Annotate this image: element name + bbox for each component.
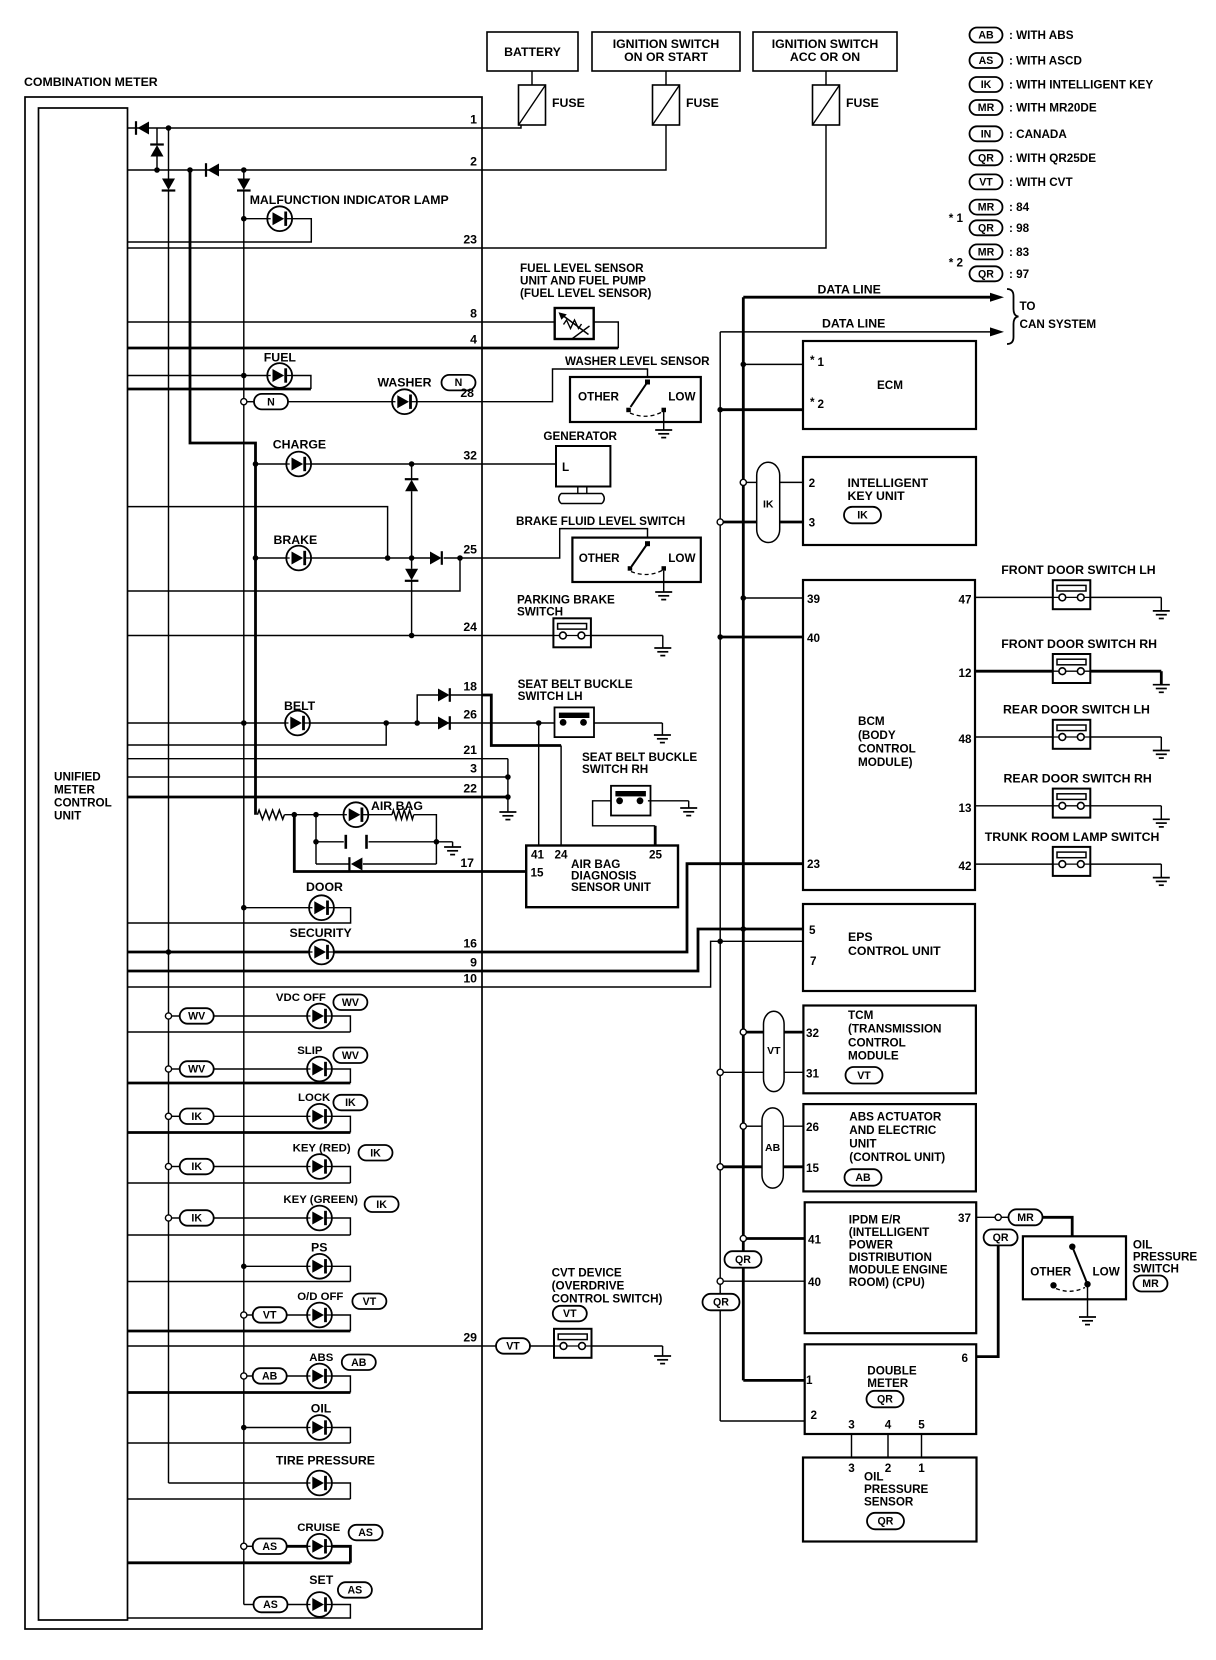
- ground airbag: [444, 847, 461, 855]
- svg-text:ABS: ABS: [309, 1352, 333, 1364]
- svg-text:N: N: [267, 396, 275, 408]
- front door switch RH: [1053, 654, 1091, 683]
- svg-text:BATTERY: BATTERY: [504, 45, 561, 59]
- svg-text:IK: IK: [370, 1147, 381, 1159]
- svg-text:IK: IK: [981, 79, 992, 91]
- wire OIL feed: [244, 1427, 307, 1429]
- rear door switch RH: [1053, 789, 1091, 818]
- svg-text:VT: VT: [563, 1308, 577, 1320]
- lamp OIL: [307, 1415, 332, 1440]
- wire DOOR return: [128, 908, 351, 923]
- wire BRAKE feed: [256, 557, 287, 559]
- svg-text:AS: AS: [979, 55, 994, 67]
- option oval QR double meter: [867, 1391, 904, 1408]
- bus A vertical: [168, 191, 170, 1484]
- wire double meter 2: [720, 1420, 805, 1422]
- wire 26 to seat belt LH: [482, 722, 555, 724]
- svg-text:QR: QR: [878, 1516, 894, 1528]
- svg-text:AS: AS: [348, 1585, 363, 1597]
- wire ECM *2: [720, 408, 803, 411]
- box AIR BAG DIAGNOSIS SENSOR UNIT: [526, 846, 678, 908]
- svg-text:SECURITY: SECURITY: [290, 926, 352, 940]
- wire BCM to trunk room lamp switch: [975, 863, 1053, 865]
- junction ECM *1 CAN-H: [741, 362, 747, 368]
- svg-text:QR: QR: [877, 1394, 893, 1406]
- svg-text:DOUBLE: DOUBLE: [867, 1365, 917, 1378]
- wire DOOR feed: [244, 907, 309, 909]
- option oval VT wire29: [496, 1338, 530, 1354]
- connector capsule VT: [764, 1011, 785, 1091]
- tap circle IPDM41: [740, 1235, 746, 1241]
- wire to airbag pin 41: [538, 723, 540, 846]
- svg-text:OTHER: OTHER: [1030, 1266, 1071, 1279]
- outer box: COMBINATION METER: [25, 97, 482, 1629]
- svg-text:: WITH CVT: : WITH CVT: [1009, 176, 1073, 189]
- inner box: unified meter control unit: [39, 108, 128, 1620]
- svg-text:AS: AS: [358, 1527, 373, 1539]
- svg-text:26: 26: [806, 1121, 820, 1134]
- svg-text:9: 9: [470, 956, 477, 970]
- option oval VT TCM: [846, 1067, 883, 1084]
- wire up-diode top: [156, 128, 158, 145]
- junction SECURITY feed: [166, 949, 172, 955]
- junction brake branch: [385, 555, 391, 561]
- diode airbag: [349, 857, 362, 871]
- row KEY (GREEN): [165, 1215, 171, 1221]
- junction airbag cap left: [313, 812, 319, 818]
- svg-text:2: 2: [470, 155, 477, 169]
- svg-text:3: 3: [848, 1419, 855, 1432]
- svg-text:(BODY: (BODY: [858, 729, 896, 742]
- junction wire 22 ground: [505, 794, 511, 800]
- svg-text:VT: VT: [363, 1296, 377, 1308]
- wire 17 to airbag unit: [482, 870, 526, 873]
- svg-text:WV: WV: [342, 997, 359, 1009]
- svg-text:OIL: OIL: [864, 1471, 883, 1484]
- junction BELT feed: [241, 720, 247, 726]
- wire IK pin 2: [746, 481, 756, 483]
- wire CHARGE feed: [256, 463, 287, 465]
- lamp MIL: [267, 206, 292, 231]
- svg-text:WASHER LEVEL SENSOR: WASHER LEVEL SENSOR: [565, 355, 710, 368]
- diode down on bus A: [162, 179, 176, 191]
- box DOUBLE METER: [805, 1344, 977, 1434]
- arrow data line 1: [990, 293, 1004, 302]
- svg-text:AS: AS: [262, 1541, 277, 1553]
- junction BCM40 CAN-L: [717, 634, 723, 640]
- wire airbag feed: [316, 814, 344, 816]
- svg-text:QR: QR: [978, 152, 994, 164]
- svg-text:23: 23: [807, 858, 821, 871]
- svg-text:FUSE: FUSE: [686, 96, 719, 110]
- wire BCM 39: [743, 597, 803, 599]
- box TCM: [803, 1006, 976, 1094]
- svg-text:VT: VT: [767, 1045, 781, 1057]
- ground brake fluid: [655, 592, 672, 600]
- diode on wire 25: [430, 551, 442, 565]
- ground trunk room lamp switch: [1153, 878, 1170, 886]
- svg-text:40: 40: [807, 632, 821, 645]
- svg-text:15: 15: [531, 867, 545, 880]
- svg-text:2: 2: [809, 477, 816, 490]
- svg-text:VDC OFF: VDC OFF: [276, 992, 326, 1004]
- junction belt return: [383, 720, 389, 726]
- diode up between wire1 wire2: [150, 145, 164, 157]
- wire FUEL lamp out: [292, 376, 311, 390]
- ground front door switch LH: [1153, 611, 1170, 619]
- generator box: [556, 446, 610, 487]
- box BCM: [803, 580, 975, 890]
- wire pin 32 row: [311, 463, 482, 465]
- diode on wire 26: [438, 716, 450, 730]
- box IGNITION SWITCH ACC OR ON: [753, 32, 897, 71]
- wire pin 9 row: [128, 970, 483, 973]
- svg-text:WASHER: WASHER: [378, 375, 432, 389]
- svg-text:WV: WV: [342, 1050, 359, 1062]
- svg-text:MR: MR: [1142, 1278, 1159, 1290]
- junction wire 3 ground: [505, 774, 511, 780]
- svg-text:UNIT AND FUEL PUMP: UNIT AND FUEL PUMP: [520, 275, 646, 288]
- wire IK pin 3: [723, 521, 756, 524]
- wire BELT return: [128, 723, 387, 745]
- option oval N label: [442, 375, 476, 391]
- svg-text:* 2: * 2: [949, 257, 964, 270]
- ground seat belt RH: [680, 808, 697, 816]
- diode down brake-24: [405, 569, 419, 581]
- svg-text:OTHER: OTHER: [579, 552, 620, 565]
- svg-text:41: 41: [808, 1234, 822, 1247]
- option oval MR oil switch: [1009, 1209, 1043, 1225]
- tap circle ABS15: [717, 1164, 723, 1170]
- wire to airbag ground: [436, 841, 452, 843]
- lamp AIR BAG: [344, 802, 369, 827]
- box ECM: [803, 341, 976, 429]
- resistor airbag right: [392, 810, 414, 819]
- wire pin 18 row: [450, 694, 482, 696]
- wire diode pair upper: [411, 464, 413, 479]
- svg-text:ACC OR ON: ACC OR ON: [790, 50, 860, 64]
- option oval QR bus1: [725, 1251, 762, 1268]
- svg-text:TCM: TCM: [848, 1009, 873, 1022]
- option oval IK unit: [844, 507, 881, 524]
- svg-text:GENERATOR: GENERATOR: [543, 430, 617, 443]
- wire circle to N oval: [247, 401, 254, 403]
- wire 16 to BCM 23: [482, 864, 803, 952]
- svg-text:VT: VT: [857, 1070, 871, 1082]
- wire double meter 1: [743, 1379, 804, 1382]
- wire airbag right corner: [414, 815, 437, 842]
- junction cap row left: [313, 839, 319, 845]
- svg-text:LOCK: LOCK: [298, 1092, 331, 1104]
- wire IPDM 37: [976, 1216, 995, 1218]
- svg-text:ABS ACTUATOR: ABS ACTUATOR: [849, 1110, 942, 1123]
- resistor airbag left: [257, 810, 284, 819]
- wire seat belt RH left: [593, 801, 656, 826]
- svg-text:OIL: OIL: [311, 1401, 332, 1415]
- ground 21/3/22: [499, 812, 516, 820]
- svg-text:39: 39: [807, 593, 821, 606]
- svg-text:FUSE: FUSE: [552, 96, 585, 110]
- wire pin 8 row: [128, 321, 555, 323]
- wire to airbag pin 24: [560, 746, 562, 846]
- legend oval AB WITH ABS: [970, 28, 1003, 43]
- svg-text:25: 25: [463, 543, 477, 557]
- svg-text:CVT DEVICE: CVT DEVICE: [552, 1267, 622, 1280]
- wire diode pair lower: [411, 581, 413, 636]
- svg-text:2: 2: [885, 1462, 892, 1475]
- wire fuse1 to pin 1: [482, 125, 521, 128]
- svg-text:TO: TO: [1020, 300, 1036, 313]
- svg-text:SET: SET: [309, 1573, 333, 1587]
- junction airbag wire17: [292, 812, 298, 818]
- tap circle IK pin2: [740, 479, 746, 485]
- svg-text:: 97: : 97: [1009, 268, 1029, 281]
- ground seat belt LH: [654, 735, 671, 743]
- wire IPDM 41: [746, 1237, 804, 1240]
- svg-text:DATA LINE: DATA LINE: [818, 282, 881, 296]
- svg-text:1: 1: [806, 1374, 813, 1387]
- junction BRAKE feed: [253, 555, 259, 561]
- option oval QR pin37: [984, 1229, 1018, 1245]
- wire meter3 to sensor3: [851, 1434, 853, 1458]
- svg-text:IK: IK: [191, 1213, 202, 1225]
- wire pin 24 row: [128, 635, 554, 637]
- wire sensor right loop: [594, 322, 619, 348]
- svg-text:OTHER: OTHER: [578, 391, 619, 404]
- row CRUISE: [241, 1543, 247, 1549]
- svg-text:FUEL LEVEL SENSOR: FUEL LEVEL SENSOR: [520, 262, 644, 275]
- wire BCM to rear door switch LH: [975, 736, 1053, 738]
- junction FUEL feed: [241, 373, 247, 379]
- svg-text:CONTROL: CONTROL: [848, 1036, 906, 1049]
- tap circle IPDM40: [717, 1278, 723, 1284]
- wire BCM 40: [720, 636, 803, 639]
- wire up-diode bottom: [156, 157, 158, 171]
- junction PS feed: [241, 1264, 247, 1270]
- fuse battery: [519, 85, 546, 125]
- wire pin 2 row: [128, 169, 483, 171]
- wire PS out: [332, 1266, 351, 1281]
- wire BCM to front door switch LH: [975, 596, 1053, 598]
- wire meter5 to sensor1: [921, 1434, 923, 1458]
- wire VT oval to switch: [529, 1345, 554, 1347]
- svg-text:POWER: POWER: [849, 1239, 894, 1252]
- wire pin 29 row: [128, 1345, 483, 1347]
- wire diode pair middle: [411, 491, 413, 558]
- wire DATA LINE 2: [720, 331, 996, 333]
- svg-text:CONTROL SWITCH): CONTROL SWITCH): [552, 1292, 663, 1305]
- wire 32 to generator: [482, 463, 556, 465]
- svg-text:18: 18: [463, 680, 477, 694]
- wire N oval to washer lamp: [288, 401, 392, 403]
- svg-text:ROOM) (CPU): ROOM) (CPU): [849, 1276, 925, 1289]
- svg-text:: WITH INTELLIGENT KEY: : WITH INTELLIGENT KEY: [1009, 79, 1153, 92]
- svg-text:CRUISE: CRUISE: [297, 1522, 340, 1534]
- box EPS CONTROL UNIT: [803, 904, 975, 991]
- svg-text:QR: QR: [978, 222, 994, 234]
- svg-text:32: 32: [463, 449, 477, 463]
- ground front door switch RH: [1153, 685, 1170, 693]
- svg-text:5: 5: [809, 924, 816, 937]
- svg-text:AB: AB: [351, 1357, 367, 1369]
- bus A upper: [168, 128, 170, 179]
- wire pin 16 row left: [128, 951, 310, 954]
- svg-text:16: 16: [463, 937, 477, 951]
- svg-text:(INTELLIGENT: (INTELLIGENT: [849, 1226, 930, 1239]
- wire FUEL feed: [128, 375, 268, 377]
- oil pressure switch lever: [1050, 1244, 1090, 1292]
- front door switch LH: [1053, 580, 1091, 609]
- svg-text:TRUNK ROOM LAMP SWITCH: TRUNK ROOM LAMP SWITCH: [985, 830, 1160, 844]
- arrow data line 2: [990, 327, 1004, 336]
- svg-text:WV: WV: [188, 1064, 205, 1076]
- CAN bus data line 2: [719, 332, 721, 1421]
- diode up charge-brake: [405, 479, 419, 491]
- svg-text:12: 12: [958, 667, 972, 680]
- svg-text:31: 31: [806, 1067, 820, 1080]
- wire MIL return: [128, 219, 312, 242]
- svg-text:21: 21: [463, 743, 477, 757]
- lamp CHARGE: [286, 452, 311, 477]
- junction MIL feed: [241, 216, 247, 222]
- svg-text:FUSE: FUSE: [846, 96, 879, 110]
- wire 25 to brake fluid switch: [482, 529, 648, 558]
- wire OIL out: [332, 1428, 351, 1444]
- svg-text:LOW: LOW: [1093, 1266, 1121, 1279]
- wire 21-3-22 ground bus: [507, 759, 509, 812]
- wire OIL return: [128, 1442, 351, 1444]
- svg-text:(OVERDRIVE: (OVERDRIVE: [552, 1280, 625, 1293]
- svg-text:SWITCH: SWITCH: [517, 606, 563, 619]
- connector capsule AB: [762, 1108, 783, 1188]
- svg-text:2: 2: [818, 398, 825, 411]
- svg-text:MALFUNCTION INDICATOR LAMP: MALFUNCTION INDICATOR LAMP: [250, 193, 449, 207]
- wire airbag right vertical: [435, 842, 437, 864]
- thick lamp feed bus: [190, 170, 256, 815]
- legend oval MR 83: [970, 244, 1003, 259]
- svg-text:UNIFIED: UNIFIED: [54, 771, 101, 784]
- seat belt buckle switch RH: [611, 786, 651, 816]
- option oval QR bus2: [703, 1294, 740, 1311]
- svg-text:37: 37: [958, 1212, 971, 1225]
- junction CHARGE feed: [253, 461, 259, 467]
- lamp BRAKE: [286, 546, 311, 571]
- junction wire9 CAN-H: [741, 926, 747, 932]
- svg-text:DATA LINE: DATA LINE: [822, 317, 885, 331]
- svg-text:28: 28: [460, 386, 474, 400]
- wire SET return: [128, 1605, 351, 1619]
- wire pin 3 row: [128, 776, 508, 778]
- legend oval IK WITH INTELLIGENT KEY: [970, 77, 1003, 92]
- svg-text:SENSOR: SENSOR: [864, 1496, 914, 1509]
- svg-text:IK: IK: [763, 499, 774, 511]
- svg-text:AB: AB: [978, 30, 994, 42]
- svg-text:17: 17: [460, 856, 474, 870]
- row LOCK: [165, 1113, 171, 1119]
- wire 10 to EPS 7: [482, 941, 803, 987]
- wire fuse3 to pin 23: [482, 125, 826, 248]
- wire pin 28 row: [417, 401, 482, 403]
- svg-text:1: 1: [918, 1462, 925, 1475]
- brake fluid level switch box: [572, 538, 700, 582]
- row KEY (RED): [165, 1163, 171, 1169]
- junction diode pair top: [409, 461, 415, 467]
- svg-text:CONTROL: CONTROL: [858, 743, 916, 756]
- option oval VT CVT device: [553, 1306, 587, 1322]
- svg-text:2: 2: [811, 1409, 818, 1422]
- wire capacitor right: [369, 841, 437, 843]
- svg-text:TIRE PRESSURE: TIRE PRESSURE: [276, 1454, 375, 1468]
- svg-text:24: 24: [463, 620, 477, 634]
- svg-text:42: 42: [958, 860, 972, 873]
- junction wire2 left: [154, 167, 160, 173]
- ground CVT device: [654, 1356, 671, 1364]
- svg-text:IGNITION SWITCH: IGNITION SWITCH: [613, 37, 720, 51]
- svg-text:: WITH QR25DE: : WITH QR25DE: [1009, 152, 1096, 165]
- svg-text:ECM: ECM: [877, 379, 903, 392]
- wire 18 jog: [482, 695, 561, 746]
- fuse ignition on or start: [653, 85, 680, 125]
- option oval AS label SET: [338, 1582, 372, 1598]
- svg-text:AS: AS: [263, 1599, 278, 1611]
- wire capacitor left: [316, 841, 344, 843]
- svg-text:23: 23: [463, 233, 477, 247]
- svg-text:KEY UNIT: KEY UNIT: [848, 489, 906, 503]
- wire BRAKE out: [311, 557, 430, 559]
- svg-text:IK: IK: [857, 510, 868, 522]
- tap circle IK pin3: [717, 519, 723, 525]
- junction diode pair on wire 25: [409, 555, 415, 561]
- wire parking brake to ground: [591, 635, 663, 637]
- wire washer switch to ground: [663, 412, 665, 430]
- svg-text:: WITH ABS: : WITH ABS: [1009, 29, 1074, 42]
- wire pin 4 row: [128, 347, 619, 350]
- wire pin 25 row: [444, 557, 482, 559]
- washer level sensor switch: [626, 380, 666, 417]
- fuse ignition acc or on: [813, 85, 840, 125]
- svg-text:AB: AB: [855, 1172, 871, 1184]
- lamp PS: [307, 1254, 332, 1279]
- svg-text:AB: AB: [765, 1142, 781, 1154]
- connector capsule IK: [757, 462, 780, 542]
- wire SET feed: [288, 1604, 308, 1606]
- wire 9 to EPS 5: [482, 929, 803, 971]
- svg-text:26: 26: [463, 708, 477, 722]
- junction OIL feed: [241, 1425, 247, 1431]
- svg-text:MODULE ENGINE: MODULE ENGINE: [849, 1264, 948, 1277]
- svg-text:48: 48: [958, 733, 972, 746]
- junction wire 18 branch: [414, 720, 420, 726]
- row O/D OFF: [241, 1312, 247, 1318]
- svg-text:4: 4: [470, 333, 477, 347]
- svg-text:MODULE: MODULE: [848, 1050, 899, 1063]
- svg-text:IK: IK: [345, 1097, 356, 1109]
- svg-text:MR: MR: [978, 247, 995, 259]
- wire 28 to washer level sensor: [482, 369, 648, 402]
- wire oil switch to ground: [1087, 1284, 1089, 1317]
- bus B vertical: [243, 191, 245, 1605]
- junction airbag 41 branch: [536, 720, 542, 726]
- svg-text:SWITCH: SWITCH: [1133, 1263, 1179, 1276]
- svg-text:METER: METER: [867, 1377, 908, 1390]
- wire TCM 32: [746, 1031, 763, 1034]
- svg-text:MODULE): MODULE): [858, 756, 913, 769]
- junction cap row right: [434, 839, 440, 845]
- svg-text:: WITH MR20DE: : WITH MR20DE: [1009, 102, 1097, 115]
- tap circle pin37: [995, 1214, 1001, 1220]
- diode on wire 2: [206, 163, 219, 177]
- svg-text:13: 13: [958, 802, 972, 815]
